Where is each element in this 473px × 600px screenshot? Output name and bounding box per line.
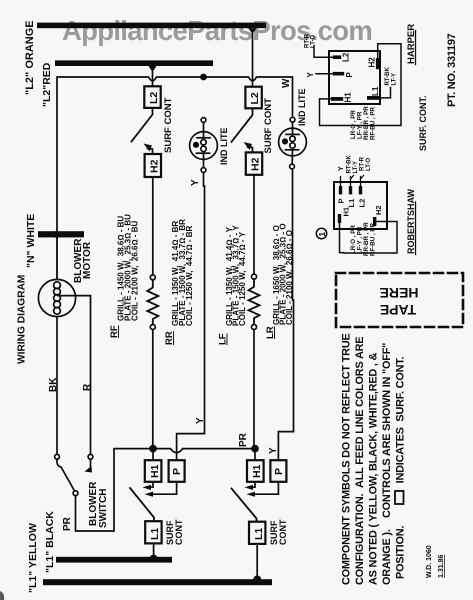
svg-text:W.D. 1060: W.D. 1060	[426, 545, 433, 578]
surf cont 2 terminal P	[270, 460, 286, 482]
svg-text:L1: L1	[253, 528, 265, 540]
node PR/H1-2	[251, 445, 259, 453]
robertshaw surf cont box	[334, 182, 387, 229]
svg-text:W: W	[281, 78, 292, 88]
surf cont 1 terminal L1	[145, 521, 161, 543]
blower switch	[55, 454, 60, 459]
svg-text:P: P	[345, 72, 354, 78]
svg-text:SWITCH: SWITCH	[98, 489, 109, 528]
svg-text:MOTOR: MOTOR	[82, 241, 93, 279]
svg-text:CONT: CONT	[174, 519, 184, 545]
svg-text:Y: Y	[338, 166, 345, 171]
svg-text:COMPONENT SYMBOLS DO NOT REFLE: COMPONENT SYMBOLS DO NOT REFLECT TRUE	[341, 333, 353, 585]
svg-text:L2: L2	[342, 52, 351, 62]
terminal H2 robertshaw	[373, 217, 376, 226]
svg-text:SURF. CONT.: SURF. CONT.	[418, 95, 428, 151]
svg-text:IND LITE: IND LITE	[297, 89, 307, 127]
bus L2 RED	[55, 60, 213, 66]
surf cont 1 terminal P	[169, 460, 185, 482]
svg-text:L2: L2	[148, 92, 160, 104]
indicator square in notes	[395, 491, 404, 504]
switch blade 2 upper	[232, 109, 253, 142]
svg-text:L1: L1	[371, 86, 380, 96]
wire N bus to motor	[56, 237, 58, 279]
bus L1 YELLOW	[43, 579, 272, 585]
svg-text:CONT: CONT	[278, 519, 288, 545]
surf cont 2 terminal H2	[246, 152, 262, 174]
svg-text:LT-Y: LT-Y	[392, 73, 398, 86]
svg-text:H2: H2	[374, 205, 383, 215]
harper surf cont box	[329, 51, 380, 104]
svg-text:Y: Y	[195, 417, 206, 424]
switch blade 2 lower	[232, 489, 257, 522]
svg-text:L1: L1	[149, 528, 161, 540]
svg-text:AppliancePartsPros.com: AppliancePartsPros.com	[62, 15, 372, 46]
wire lamp1 Y to P-1	[177, 172, 205, 460]
svg-text:ORANGE ). CONTROLS ARE SHOW: ORANGE ). CONTROLS ARE SHOWN IN "OFF"	[381, 343, 393, 585]
tape here box	[336, 273, 463, 327]
wire harper P feed Y	[316, 73, 333, 75]
svg-text:Y: Y	[268, 447, 279, 454]
wire into H1-2	[254, 449, 256, 460]
pin stubs robertshaw	[341, 176, 364, 187]
switch blade 1 upper	[132, 109, 153, 142]
terminal L1 harper	[367, 96, 379, 100]
wire harper H1-H2 loop	[320, 44, 402, 126]
wire motor tap R	[58, 296, 91, 455]
node on L1 YELLOW	[253, 576, 261, 584]
terminal H1 robertshaw	[338, 214, 341, 223]
svg-text:RT-R: RT-R	[360, 156, 366, 171]
svg-text:PT. NO. 331197: PT. NO. 331197	[446, 33, 458, 107]
svg-text:COIL - 1250 W, 44.7Ω - BR: COIL - 1250 W, 44.7Ω - BR	[185, 226, 194, 326]
svg-text:H2: H2	[368, 57, 377, 68]
node W line to lamp1	[200, 74, 207, 81]
terminal L1 robertshaw	[349, 186, 352, 194]
wire into H1-1	[152, 449, 154, 460]
svg-text:SURF CONT: SURF CONT	[163, 97, 174, 153]
terminal L2 robertshaw	[359, 186, 362, 194]
svg-text:LT-O: LT-O	[311, 34, 317, 48]
svg-text:PR: PR	[238, 432, 249, 447]
wire harper L2 feed	[314, 46, 333, 57]
contact arrow H2-2	[248, 147, 253, 152]
terminal H1 harper	[331, 97, 343, 101]
svg-text:P: P	[337, 198, 346, 203]
svg-text:P: P	[273, 468, 285, 475]
contact arrow H1-2	[252, 482, 255, 487]
terminal P harper	[333, 72, 344, 76]
svg-text:"L2" ORANGE: "L2" ORANGE	[24, 20, 36, 95]
circuit 1 : L2 drop	[149, 66, 157, 72]
terminal L2 harper	[333, 55, 341, 59]
bus L1 BLACK	[56, 557, 172, 563]
surf cont 1 terminal H1	[145, 460, 162, 482]
svg-text:AS NOTED ( YELLOW, BLACK, WHIT: AS NOTED ( YELLOW, BLACK, WHITE,RED , &	[368, 352, 380, 585]
ind lite 2	[290, 117, 295, 122]
svg-text:TAPE: TAPE	[380, 302, 416, 318]
terminal H2 harper	[376, 58, 380, 69]
svg-text:"N" WHITE: "N" WHITE	[25, 214, 37, 268]
surf cont 1 terminal H2	[145, 154, 161, 177]
wire L1-1 to black bus	[153, 543, 155, 557]
svg-text:RF-BU , PR: RF-BU , PR	[370, 222, 377, 256]
svg-text:"L1" YELLOW: "L1" YELLOW	[27, 523, 39, 593]
svg-text:H1: H1	[251, 464, 263, 478]
svg-text:RT-BK: RT-BK	[347, 155, 353, 174]
svg-text:RF: RF	[109, 325, 120, 338]
surf cont 2 terminal H1	[247, 460, 264, 482]
resistor element LR	[249, 279, 260, 324]
svg-text:Y: Y	[190, 179, 201, 186]
svg-text:LR: LR	[265, 326, 276, 339]
svg-text:LT-O: LT-O	[366, 157, 372, 171]
svg-text:PR: PR	[62, 516, 73, 531]
wire L1-2 to yellow bus	[256, 544, 258, 579]
contact arrow H2-1	[148, 149, 153, 154]
contact arrow P-2	[254, 482, 278, 494]
svg-text:H1: H1	[149, 464, 161, 478]
wire PR run	[76, 449, 256, 531]
svg-text:H2: H2	[250, 157, 262, 171]
wire motor BK	[56, 317, 58, 455]
switch blade 1 lower	[130, 488, 154, 521]
svg-text:"L1" BLACK: "L1" BLACK	[44, 511, 56, 573]
svg-text:COIL - 2100 W, 26.6Ω - BU: COIL - 2100 W, 26.6Ω - BU	[131, 221, 140, 321]
svg-text:RF-BU , PR: RF-BU , PR	[370, 106, 377, 140]
svg-text:SURF CONT: SURF CONT	[263, 98, 274, 154]
svg-text:L2: L2	[358, 199, 367, 208]
svg-text:ROBERTSHAW: ROBERTSHAW	[406, 188, 416, 254]
terminal P robertshaw	[339, 186, 342, 194]
resistor element RR	[147, 280, 158, 324]
svg-text:H1: H1	[344, 92, 353, 103]
svg-text:IND LITE: IND LITE	[219, 128, 229, 166]
svg-text:RT-BK: RT-BK	[385, 67, 391, 86]
contact arrow P-1	[152, 482, 177, 494]
svg-text:H2: H2	[149, 159, 161, 173]
svg-text:H1: H1	[342, 207, 351, 217]
node N bus junction	[53, 231, 60, 238]
svg-text:CONFIGURATION. ALL FEED LINE: CONFIGURATION. ALL FEED LINE COLORS ARE	[354, 337, 366, 585]
wire robertshaw H2 loop	[344, 222, 398, 254]
node 1 circled	[316, 228, 326, 238]
svg-text:1: 1	[318, 232, 327, 237]
blower motor M	[38, 279, 75, 316]
node on L1 BLACK	[150, 555, 158, 563]
svg-text:L1: L1	[347, 199, 356, 208]
surf cont 2 terminal L1	[249, 522, 265, 544]
wire robertshaw H1 down	[340, 223, 344, 253]
svg-text:Y: Y	[306, 72, 315, 78]
wire lamp2 Y to P-2	[278, 169, 293, 460]
svg-text:"L2"RED: "L2"RED	[41, 62, 53, 107]
bus N WHITE	[38, 231, 84, 237]
svg-text:WIRING DIAGRAM: WIRING DIAGRAM	[17, 275, 28, 364]
svg-text:RR: RR	[164, 331, 175, 345]
contact arrow H1-1	[150, 482, 153, 487]
svg-text:R: R	[82, 383, 93, 391]
svg-text:L2: L2	[249, 92, 261, 104]
svg-text:BK: BK	[48, 377, 59, 392]
bus L2 ORANGE	[37, 23, 266, 29]
node PR/H1-1	[149, 445, 157, 453]
wire element to H1-2	[254, 330, 255, 449]
wire H2-1 to element	[152, 178, 154, 275]
surf cont 2 terminal L2	[245, 87, 261, 109]
svg-text:LF: LF	[218, 333, 229, 345]
surf cont 1 terminal L2	[144, 86, 160, 108]
ind lite 1	[201, 118, 206, 123]
circuit 2 : L2 drop from orange bus	[249, 28, 257, 34]
scan smudge bottom-left corner	[0, 591, 4, 600]
wire element to H1-1	[152, 330, 154, 448]
svg-text:HERE: HERE	[380, 285, 419, 301]
svg-text:P: P	[171, 468, 183, 475]
wire W neutral line	[57, 77, 293, 231]
wire H2-2 to element	[253, 175, 255, 274]
svg-text:POSITION. INDICA: POSITION. INDICATES SURF. CONT.	[395, 356, 407, 579]
svg-text:1.31.86: 1.31.86	[438, 555, 445, 578]
svg-text:COIL - 1250 W, 44.7Ω - Y: COIL - 1250 W, 44.7Ω - Y	[238, 231, 247, 326]
wire harper L1 feed	[379, 88, 390, 98]
svg-text:LT-Y: LT-Y	[353, 161, 359, 174]
